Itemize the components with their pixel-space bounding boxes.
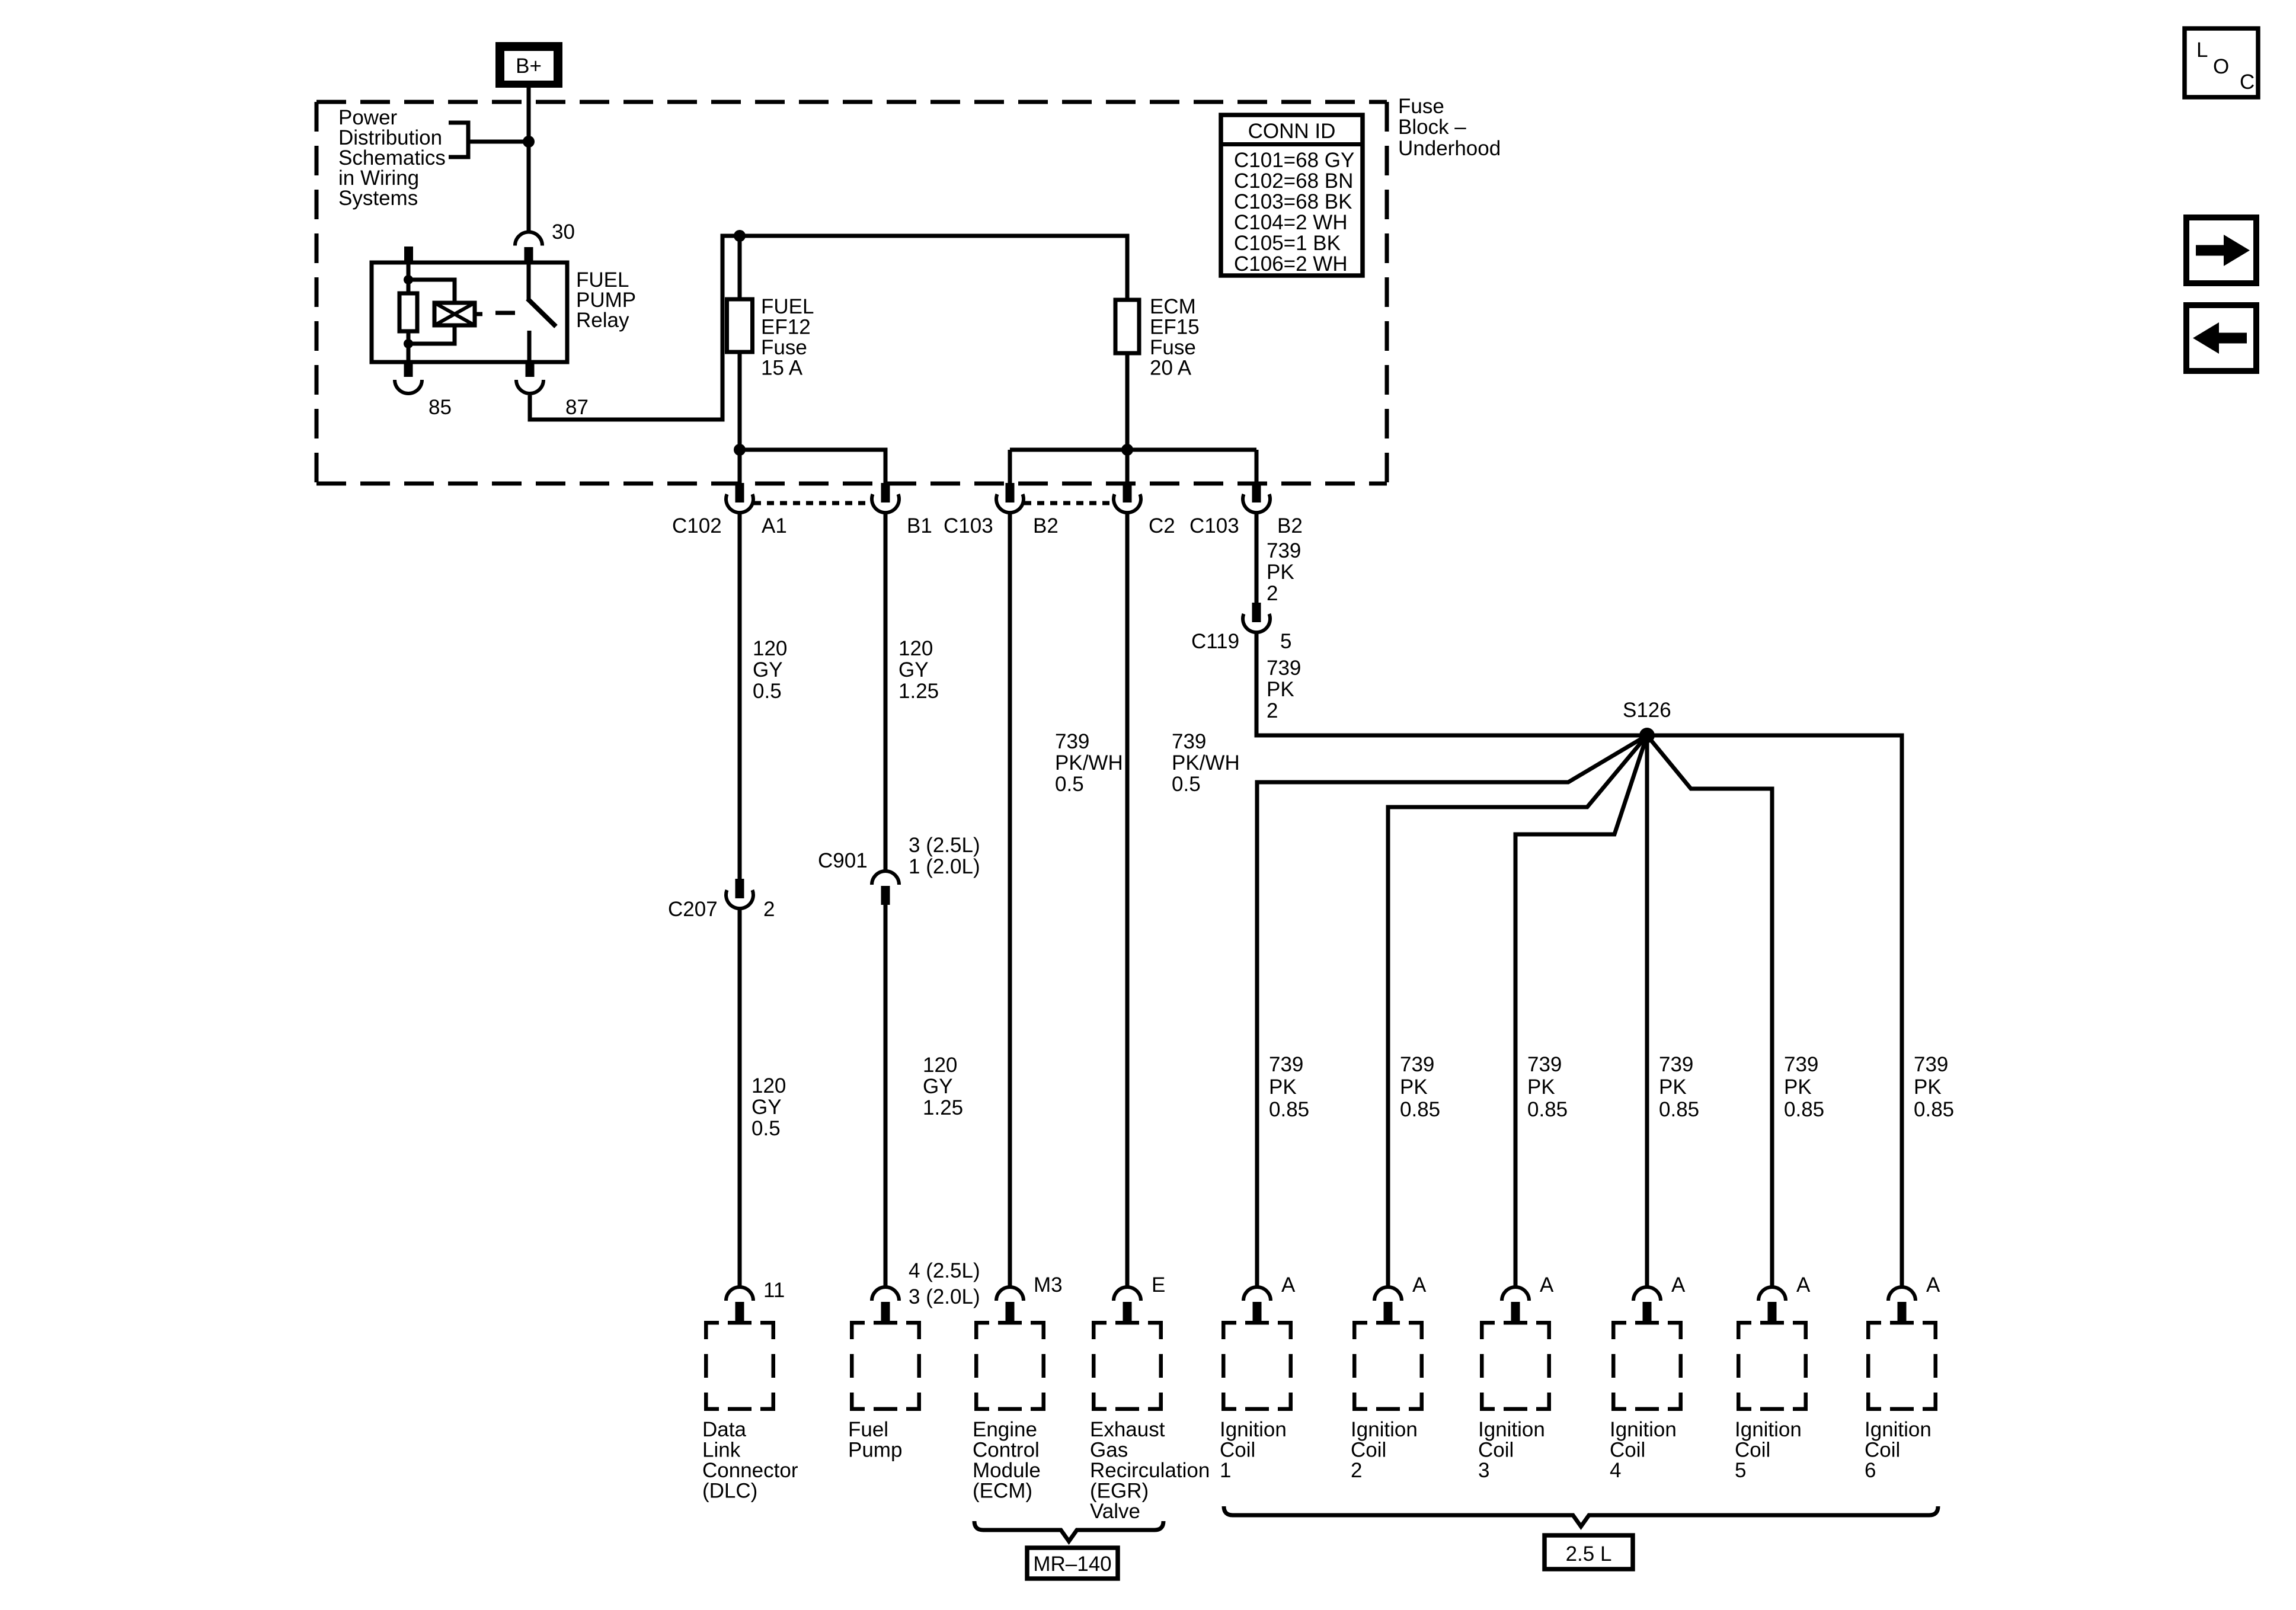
svg-text:739: 739: [1784, 1053, 1818, 1076]
svg-text:2: 2: [1267, 582, 1278, 605]
svg-text:PK: PK: [1400, 1076, 1428, 1099]
svg-text:PK: PK: [1914, 1076, 1942, 1099]
svg-text:Fuse: Fuse: [1150, 336, 1196, 359]
svg-text:2: 2: [1267, 699, 1278, 722]
svg-text:Coil: Coil: [1610, 1439, 1645, 1462]
svg-text:B2: B2: [1277, 514, 1303, 537]
svg-text:PK: PK: [1267, 678, 1294, 701]
svg-text:Block –: Block –: [1398, 116, 1466, 139]
svg-text:C901: C901: [818, 849, 868, 872]
svg-text:739: 739: [1400, 1053, 1434, 1076]
svg-text:Control: Control: [973, 1439, 1040, 1462]
svg-text:Ignition: Ignition: [1735, 1418, 1802, 1441]
svg-text:0.85: 0.85: [1527, 1098, 1568, 1121]
svg-text:Ignition: Ignition: [1220, 1418, 1287, 1441]
svg-text:Coil: Coil: [1478, 1439, 1514, 1462]
svg-text:Underhood: Underhood: [1398, 137, 1501, 160]
svg-text:5: 5: [1280, 630, 1291, 653]
svg-text:85: 85: [428, 396, 452, 419]
svg-text:A: A: [1412, 1273, 1427, 1297]
svg-text:C103: C103: [1189, 514, 1239, 537]
svg-text:C103=68 BK: C103=68 BK: [1234, 190, 1352, 213]
svg-text:Coil: Coil: [1865, 1439, 1900, 1462]
svg-text:1.25: 1.25: [898, 680, 939, 703]
svg-text:Coil: Coil: [1735, 1439, 1770, 1462]
svg-text:5: 5: [1735, 1459, 1746, 1482]
svg-text:A: A: [1671, 1273, 1686, 1297]
svg-text:C: C: [2240, 71, 2255, 94]
svg-text:Exhaust: Exhaust: [1090, 1418, 1165, 1441]
svg-text:0.5: 0.5: [1172, 773, 1201, 796]
svg-text:Coil: Coil: [1351, 1439, 1386, 1462]
svg-text:C102: C102: [672, 514, 722, 537]
svg-text:Link: Link: [702, 1439, 741, 1462]
svg-text:739: 739: [1267, 657, 1301, 680]
svg-text:0.85: 0.85: [1914, 1098, 1954, 1121]
svg-text:Coil: Coil: [1220, 1439, 1255, 1462]
svg-text:(EGR): (EGR): [1090, 1480, 1149, 1503]
svg-text:Pump: Pump: [848, 1439, 902, 1462]
svg-text:Module: Module: [973, 1459, 1041, 1482]
svg-text:11: 11: [763, 1279, 785, 1302]
svg-text:739: 739: [1269, 1053, 1303, 1076]
svg-text:(ECM): (ECM): [973, 1480, 1032, 1503]
svg-text:0.5: 0.5: [752, 1117, 781, 1140]
svg-text:B1: B1: [907, 514, 932, 537]
svg-text:Valve: Valve: [1090, 1500, 1140, 1523]
svg-text:PK: PK: [1267, 561, 1294, 584]
svg-text:C102=68 BN: C102=68 BN: [1234, 169, 1353, 193]
svg-text:1: 1: [1220, 1459, 1231, 1482]
svg-text:Fuse: Fuse: [1398, 95, 1444, 118]
svg-text:(DLC): (DLC): [702, 1480, 757, 1503]
svg-text:O: O: [2213, 55, 2229, 78]
svg-text:739: 739: [1659, 1053, 1693, 1076]
svg-text:GY: GY: [923, 1075, 953, 1098]
svg-text:1.25: 1.25: [923, 1096, 963, 1119]
svg-text:120: 120: [923, 1054, 957, 1077]
svg-text:120: 120: [752, 1074, 786, 1097]
svg-text:C105=1 BK: C105=1 BK: [1234, 232, 1341, 255]
svg-text:87: 87: [565, 396, 589, 419]
svg-text:B+: B+: [516, 55, 542, 78]
svg-text:30: 30: [552, 220, 575, 244]
svg-text:0.85: 0.85: [1659, 1098, 1699, 1121]
svg-text:A: A: [1926, 1273, 1940, 1297]
svg-text:Recirculation: Recirculation: [1090, 1459, 1210, 1482]
svg-text:6: 6: [1865, 1459, 1876, 1482]
svg-text:Ignition: Ignition: [1478, 1418, 1545, 1441]
svg-text:PK: PK: [1659, 1076, 1687, 1099]
svg-text:C207: C207: [668, 898, 718, 921]
svg-text:2.5 L: 2.5 L: [1566, 1542, 1612, 1566]
svg-text:0.85: 0.85: [1400, 1098, 1440, 1121]
svg-text:ECM: ECM: [1150, 295, 1196, 318]
svg-text:0.85: 0.85: [1784, 1098, 1824, 1121]
svg-text:0.5: 0.5: [1055, 773, 1084, 796]
svg-text:A: A: [1281, 1273, 1296, 1297]
svg-text:C101=68 GY: C101=68 GY: [1234, 149, 1354, 172]
svg-text:2: 2: [763, 898, 775, 921]
svg-text:EF15: EF15: [1150, 316, 1200, 339]
svg-text:Gas: Gas: [1090, 1439, 1128, 1462]
svg-text:PK/WH: PK/WH: [1172, 751, 1240, 774]
svg-text:Connector: Connector: [702, 1459, 798, 1482]
svg-text:3 (2.0L): 3 (2.0L): [909, 1285, 980, 1308]
svg-text:3 (2.5L): 3 (2.5L): [909, 834, 980, 857]
svg-text:E: E: [1152, 1273, 1165, 1297]
svg-text:EF12: EF12: [761, 316, 811, 339]
svg-text:GY: GY: [752, 1096, 782, 1119]
svg-text:Fuel: Fuel: [848, 1418, 888, 1441]
svg-text:C104=2 WH: C104=2 WH: [1234, 211, 1348, 234]
svg-text:A1: A1: [762, 514, 787, 537]
svg-text:S126: S126: [1623, 699, 1671, 722]
svg-text:CONN ID: CONN ID: [1248, 120, 1336, 143]
svg-text:739: 739: [1914, 1053, 1948, 1076]
svg-text:Data: Data: [702, 1418, 746, 1441]
svg-text:Fuse: Fuse: [761, 336, 807, 359]
svg-text:C106=2 WH: C106=2 WH: [1234, 252, 1348, 276]
svg-text:739: 739: [1267, 539, 1301, 562]
svg-text:A: A: [1540, 1273, 1554, 1297]
svg-text:120: 120: [898, 637, 933, 660]
svg-text:739: 739: [1055, 730, 1089, 753]
svg-text:15 A: 15 A: [761, 357, 803, 380]
svg-text:120: 120: [753, 637, 787, 660]
svg-text:PK: PK: [1784, 1076, 1812, 1099]
svg-text:M3: M3: [1034, 1273, 1063, 1297]
svg-text:739: 739: [1527, 1053, 1562, 1076]
svg-text:C2: C2: [1149, 514, 1175, 537]
svg-text:C119: C119: [1191, 630, 1239, 653]
svg-text:C103: C103: [944, 514, 993, 537]
svg-text:L: L: [2196, 39, 2208, 62]
svg-text:GY: GY: [753, 658, 783, 681]
svg-text:GY: GY: [898, 658, 929, 681]
svg-text:0.85: 0.85: [1269, 1098, 1309, 1121]
svg-text:MR–140: MR–140: [1033, 1553, 1111, 1576]
svg-text:3: 3: [1478, 1459, 1489, 1482]
svg-text:Relay: Relay: [576, 309, 629, 332]
svg-text:20 A: 20 A: [1150, 357, 1192, 380]
svg-text:Engine: Engine: [973, 1418, 1037, 1441]
svg-text:PK: PK: [1527, 1076, 1555, 1099]
svg-text:0.5: 0.5: [753, 680, 782, 703]
svg-text:A: A: [1796, 1273, 1811, 1297]
svg-text:2: 2: [1351, 1459, 1362, 1482]
svg-text:4 (2.5L): 4 (2.5L): [909, 1259, 980, 1282]
svg-text:PK/WH: PK/WH: [1055, 751, 1123, 774]
svg-text:Ignition: Ignition: [1351, 1418, 1418, 1441]
svg-text:B2: B2: [1033, 514, 1059, 537]
svg-text:1 (2.0L): 1 (2.0L): [909, 855, 980, 878]
svg-text:Ignition: Ignition: [1865, 1418, 1932, 1441]
svg-text:4: 4: [1610, 1459, 1621, 1482]
svg-text:FUEL: FUEL: [761, 295, 814, 318]
svg-text:739: 739: [1172, 730, 1206, 753]
svg-text:Systems: Systems: [338, 187, 418, 210]
svg-text:PK: PK: [1269, 1076, 1297, 1099]
svg-text:Ignition: Ignition: [1610, 1418, 1677, 1441]
